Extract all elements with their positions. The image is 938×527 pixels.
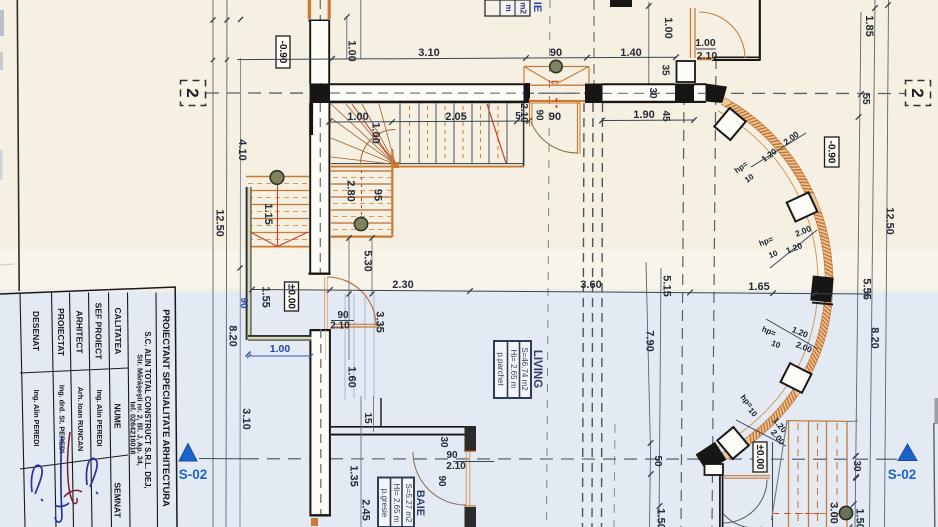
svg-text:1.40: 1.40 xyxy=(620,47,641,59)
dim line mid (2.30/3.60/1.65) xyxy=(252,290,868,295)
column bay right (redraw) xyxy=(585,84,603,104)
svg-text:p.gresie: p.gresie xyxy=(380,489,389,518)
svg-text:LIVING: LIVING xyxy=(531,350,543,388)
chain line mid b xyxy=(659,268,661,527)
arc window dim line 3 xyxy=(766,319,818,349)
chain line left B xyxy=(226,0,227,527)
arc column bottom xyxy=(696,442,727,472)
stair flight A right edge xyxy=(523,103,525,166)
svg-text:90: 90 xyxy=(533,109,544,121)
svg-text:CALITATEA: CALITATEA xyxy=(113,308,123,355)
chain line top stair a xyxy=(346,16,348,59)
deck circle column xyxy=(839,506,852,519)
terrace parapet vertical xyxy=(248,187,251,339)
svg-text:m: m xyxy=(504,4,513,11)
arc post 1 xyxy=(714,108,746,140)
dim line blue 1.00 xyxy=(249,355,311,357)
wall vert mid body xyxy=(310,103,328,274)
bath door jambs orange xyxy=(465,452,467,505)
curved wall inner face line xyxy=(725,98,833,460)
dim tick entrance blue xyxy=(246,352,251,357)
svg-text:12.50: 12.50 xyxy=(214,209,226,237)
chain line stair bottom a xyxy=(348,236,350,360)
chain line bath b xyxy=(373,396,375,432)
svg-text:1.55: 1.55 xyxy=(260,286,272,307)
chain line left C xyxy=(239,58,242,527)
black bar top edge xyxy=(610,0,632,7)
svg-text:Hi= 2.65 m: Hi= 2.65 m xyxy=(392,484,401,523)
svg-text:p.parchet: p.parchet xyxy=(496,352,505,386)
column tee junction xyxy=(310,84,331,104)
svg-text:35: 35 xyxy=(659,64,670,76)
svg-text:55: 55 xyxy=(860,93,871,105)
chain line stair bottom b xyxy=(371,236,373,294)
dim ticks stair xyxy=(326,119,332,125)
column end of wall at bay (redraw) xyxy=(524,83,531,103)
level marker -0.90 right xyxy=(825,137,840,167)
svg-text:5.15: 5.15 xyxy=(661,275,673,296)
dim line door 1.00 top xyxy=(696,48,716,50)
bay window sill lines (orange) xyxy=(530,84,585,86)
kitchen door leaf right xyxy=(577,100,579,154)
axis dashed x614 bottom xyxy=(614,424,615,527)
svg-text:3.35: 3.35 xyxy=(374,311,386,332)
svg-text:30: 30 xyxy=(851,460,862,472)
svg-text:2: 2 xyxy=(183,88,202,97)
svg-text:5.30: 5.30 xyxy=(362,250,374,271)
svg-text:30: 30 xyxy=(438,436,449,448)
svg-text:BAIE: BAIE xyxy=(414,490,426,516)
section line S-02 xyxy=(246,458,886,460)
svg-text:tel. 0264216016: tel. 0264216016 xyxy=(128,401,137,454)
wall vert lower body xyxy=(311,330,330,516)
chain ext blue d xyxy=(373,294,375,398)
deck terrace xyxy=(787,420,849,423)
paper upper sheet (cream) xyxy=(0,0,938,292)
room label BAIE box xyxy=(378,478,414,527)
stair direction red line A xyxy=(487,104,506,163)
dim tick mid chain xyxy=(648,440,654,446)
svg-text:NUME: NUME xyxy=(112,403,122,428)
porch door arc B xyxy=(724,514,763,527)
arc window dim line 1 xyxy=(751,133,806,167)
svg-text:1.00: 1.00 xyxy=(695,37,716,49)
chain line right C xyxy=(885,0,889,527)
arc post 3 xyxy=(781,363,812,393)
svg-text:12.50: 12.50 xyxy=(884,207,896,235)
level marker -0.90 left xyxy=(276,36,290,68)
svg-text:SEF PROIECT: SEF PROIECT xyxy=(93,303,103,360)
dim line entrance door xyxy=(331,320,354,322)
entrance door swing arc xyxy=(327,277,376,326)
svg-text:1.90: 1.90 xyxy=(633,109,654,121)
title block grid xyxy=(0,287,176,294)
porch door arc A xyxy=(724,480,768,523)
svg-text:Hi= 2.65 m: Hi= 2.65 m xyxy=(509,350,518,389)
signature blue 2 xyxy=(55,436,69,522)
svg-text:50: 50 xyxy=(652,455,663,467)
arc post 4 xyxy=(717,427,749,459)
chain line bath a xyxy=(360,396,362,527)
svg-text:1.60: 1.60 xyxy=(346,366,358,387)
svg-text:1.50: 1.50 xyxy=(854,508,866,527)
projection dashed x594 top xyxy=(593,0,595,103)
dim tick stairs bottom xyxy=(346,235,352,241)
partition wall 15 bottom line xyxy=(331,434,472,436)
svg-text:90: 90 xyxy=(436,475,447,487)
signature red xyxy=(64,432,82,504)
level marker +-0.00 porch xyxy=(753,442,767,472)
terrace circle column xyxy=(270,171,284,185)
kitchen door swing arc xyxy=(531,122,578,153)
svg-text:1.50: 1.50 xyxy=(655,508,667,527)
svg-text:m2: m2 xyxy=(519,2,528,14)
svg-text:SEMNAT: SEMNAT xyxy=(112,482,122,518)
terrace steps left xyxy=(246,176,309,178)
svg-text:±0.00: ±0.00 xyxy=(754,445,765,470)
wall vert cap top xyxy=(309,20,331,22)
section line S-02 left solid xyxy=(199,458,246,460)
column mid xyxy=(675,84,694,104)
level marker +-0.00 entrance xyxy=(285,282,299,311)
wall vert axis dashed xyxy=(319,0,321,273)
svg-text:1.00: 1.00 xyxy=(346,40,358,61)
scan edge right lower xyxy=(934,423,935,527)
svg-text:DESENAT: DESENAT xyxy=(31,311,41,352)
section triangle right xyxy=(898,444,917,461)
kitchen door frame left xyxy=(529,98,531,126)
svg-text:95: 95 xyxy=(372,189,384,201)
svg-text:PROIECTANT SPECIALITATE ARHITE: PROIECTANT SPECIALITATE ARHITECTURA xyxy=(161,309,171,507)
axis 2 horizontal dashed xyxy=(206,92,906,95)
arc window dim line 4 xyxy=(736,420,786,446)
svg-text:2.10: 2.10 xyxy=(518,103,529,123)
wall vert axis dashed lower xyxy=(320,329,322,516)
svg-text:Ing. Alin PEREDI: Ing. Alin PEREDI xyxy=(95,390,104,447)
svg-text:-0.90: -0.90 xyxy=(277,41,288,64)
bath door swing arc xyxy=(413,452,466,505)
svg-text:5.55: 5.55 xyxy=(861,278,873,299)
kitchen door frame top xyxy=(530,100,581,102)
dim ticks mid xyxy=(249,287,255,293)
curved wall band fill xyxy=(723,101,829,457)
svg-text:-0.90: -0.90 xyxy=(826,141,837,164)
wall main top line left xyxy=(329,83,526,85)
wall main white segment left xyxy=(330,85,526,102)
column arc start (tilted) xyxy=(706,84,728,104)
chain line right B xyxy=(870,0,876,527)
svg-text:90: 90 xyxy=(446,450,458,461)
svg-text:3.60: 3.60 xyxy=(580,279,601,291)
svg-text:S=5.27 m2: S=5.27 m2 xyxy=(404,484,413,523)
svg-text:4.10: 4.10 xyxy=(236,139,248,160)
chain ext blue a xyxy=(344,294,346,400)
wall vert thick edge below tee xyxy=(309,103,313,135)
svg-text:Ing. Alin PEREDI: Ing. Alin PEREDI xyxy=(32,390,41,447)
projection dashed x602 xyxy=(602,103,603,527)
stair flight A bottom line xyxy=(331,163,524,165)
svg-text:90: 90 xyxy=(238,297,249,309)
svg-text:1.15: 1.15 xyxy=(262,203,274,224)
dim line bath door xyxy=(453,461,494,463)
seam shading xyxy=(0,289,938,292)
arc post 2 xyxy=(787,192,818,221)
chain ext blue b xyxy=(353,294,355,398)
svg-text:90: 90 xyxy=(549,111,561,123)
window hatch above wall top xyxy=(308,0,311,19)
wall vert cap bottom xyxy=(310,514,332,516)
wall main short segment xyxy=(694,85,706,102)
svg-text:3.00: 3.00 xyxy=(828,502,840,523)
svg-text:2.80: 2.80 xyxy=(345,180,357,201)
svg-text:2.05: 2.05 xyxy=(445,111,466,123)
projection dashed x593 xyxy=(592,103,593,527)
svg-text:3.10: 3.10 xyxy=(240,408,252,429)
stair flight A treads xyxy=(399,104,401,165)
svg-text:45: 45 xyxy=(660,110,671,122)
axis box 2 right xyxy=(906,81,931,106)
stair winder fan xyxy=(331,104,396,165)
door sill orange top room xyxy=(697,57,714,59)
section line S-02 right solid xyxy=(886,458,897,460)
arc column mid (at seam) xyxy=(810,275,833,302)
svg-text:15: 15 xyxy=(362,412,373,424)
entrance door leaf xyxy=(333,323,381,325)
wall main bottom line left xyxy=(329,101,526,104)
sheet border left xyxy=(17,0,19,291)
room label LIVING box xyxy=(494,341,531,398)
signature blue 1 xyxy=(31,465,43,501)
porch wall below arc xyxy=(705,464,724,475)
partition wall 15 top line xyxy=(331,426,472,428)
porch sill orange xyxy=(723,475,770,477)
projection dashed x547 xyxy=(547,0,551,527)
door leaf top room (orange) xyxy=(690,8,692,58)
column bay right xyxy=(585,84,603,104)
chain ext blue c xyxy=(364,294,366,400)
partition stub xyxy=(380,398,382,427)
svg-text:1.00: 1.00 xyxy=(347,111,368,123)
room wall corner top right xyxy=(714,56,761,58)
section triangle left xyxy=(179,444,197,462)
bath east wall upper xyxy=(465,426,477,451)
dim tick top chains xyxy=(344,14,350,20)
dim tick deck xyxy=(853,453,859,459)
svg-text:S=46.74 m2: S=46.74 m2 xyxy=(520,347,529,391)
svg-text:ARHITECT: ARHITECT xyxy=(74,311,84,355)
chain line mid a (5.15/7.90) xyxy=(646,262,651,527)
svg-text:IE: IE xyxy=(531,2,543,12)
svg-text:2.45: 2.45 xyxy=(360,499,372,520)
dim ticks top xyxy=(329,56,335,62)
svg-text:3.10: 3.10 xyxy=(418,47,439,59)
door swing arc top room xyxy=(699,12,745,58)
terrace parapet horizontal xyxy=(248,337,312,340)
sheet border left lower smudge xyxy=(0,264,14,265)
svg-text:PROIECTAT: PROIECTAT xyxy=(56,308,66,357)
dim line 1.90 xyxy=(602,119,694,122)
svg-text:2: 2 xyxy=(908,88,927,97)
svg-text:30: 30 xyxy=(647,87,658,99)
dim tick chain right bottom xyxy=(853,453,859,459)
svg-text:2.10: 2.10 xyxy=(446,461,466,472)
curved wall hatching xyxy=(725,103,734,107)
svg-text:8.20: 8.20 xyxy=(227,325,239,346)
entrance jamb marks xyxy=(324,277,326,329)
wall main white segment mid xyxy=(603,85,676,102)
axis box 2 left xyxy=(181,81,206,106)
dim line stair (1.00/2.05/5) xyxy=(329,121,529,122)
svg-text:90: 90 xyxy=(550,47,562,59)
chain line top right a xyxy=(648,2,650,84)
curved wall outer face line xyxy=(721,104,825,454)
svg-text:1.00: 1.00 xyxy=(370,122,382,143)
axis dashed x716 xyxy=(712,58,716,527)
svg-text:90: 90 xyxy=(337,310,349,321)
orange mark below wall bottom xyxy=(311,518,318,526)
wall vert upper body xyxy=(310,21,328,83)
svg-text:7.90: 7.90 xyxy=(644,330,656,351)
projection dashed x584 xyxy=(583,103,585,527)
svg-text:2.30: 2.30 xyxy=(392,279,413,291)
axis dashed x684 xyxy=(681,94,684,527)
scan smudges top left xyxy=(0,10,4,36)
bath east wall lower xyxy=(465,507,477,527)
chain line left A xyxy=(212,0,214,527)
svg-text:S-02: S-02 xyxy=(179,467,208,482)
stair flight B circle column xyxy=(354,217,367,230)
svg-text:2.10: 2.10 xyxy=(697,50,718,62)
svg-text:2.10: 2.10 xyxy=(330,321,350,332)
svg-text:1.00: 1.00 xyxy=(662,17,674,38)
room label top partial xyxy=(485,0,530,16)
column tee junction redraw xyxy=(310,84,331,104)
wall axis dashed in main wall xyxy=(330,92,705,94)
chain line right A upper xyxy=(855,12,861,527)
jamb block 35 xyxy=(677,61,696,82)
dim line top (3.10/90/1.40) xyxy=(237,57,676,59)
wall vert cap above entrance xyxy=(309,273,331,275)
curved wall outer glass line xyxy=(718,111,818,448)
scan edge right blotch xyxy=(935,398,938,424)
svg-text:1.35: 1.35 xyxy=(348,465,360,486)
stair flight B treads xyxy=(331,170,392,172)
column end of wall at bay xyxy=(524,83,531,103)
arc window dim line 2 xyxy=(770,230,817,268)
porch wall lines to bottom xyxy=(719,475,721,527)
bay window triangle lines xyxy=(524,66,589,68)
wall vert axis dashed mid redraw xyxy=(319,103,321,273)
svg-text:1.85: 1.85 xyxy=(863,15,875,36)
svg-text:1.00: 1.00 xyxy=(270,343,291,355)
column mid (redraw) xyxy=(675,84,694,104)
svg-text:±0.00: ±0.00 xyxy=(285,284,296,309)
svg-text:8.20: 8.20 xyxy=(869,327,881,348)
wall vert cap below entrance xyxy=(310,329,332,331)
svg-text:S-02: S-02 xyxy=(888,467,917,482)
paper lower sheet (bluish scan) xyxy=(0,291,938,527)
signature blue 3 xyxy=(86,458,98,494)
dim tick chain right top xyxy=(858,91,864,97)
kitchen door red mark xyxy=(556,98,558,108)
chain line top stair b xyxy=(360,0,362,59)
svg-text:1.65: 1.65 xyxy=(748,281,769,293)
paper upper sheet light band xyxy=(0,250,938,291)
svg-text:Arh. Ioan RUNCAN: Arh. Ioan RUNCAN xyxy=(76,387,85,451)
bay column circle xyxy=(550,60,562,72)
